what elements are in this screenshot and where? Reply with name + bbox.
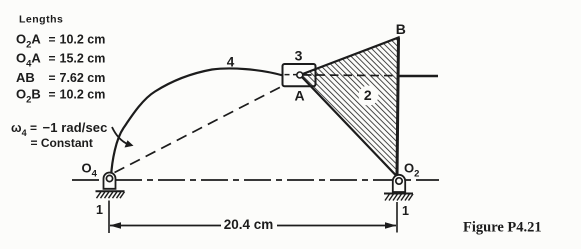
svg-text:20.4 cm: 20.4 cm <box>224 217 274 232</box>
pivot O4 pin circle <box>106 175 112 181</box>
wire dashed line through link 2 <box>303 74 398 77</box>
wire dashed line O4 to A <box>115 86 283 173</box>
ground at O4 <box>96 190 125 192</box>
omega arrow <box>112 127 129 145</box>
dimension witness line left <box>108 201 110 234</box>
pivot O2 pin circle <box>396 178 402 184</box>
dimension witness line right <box>396 202 398 233</box>
link 2 triangle hatched <box>300 38 399 177</box>
node ground centerline (frame 1) <box>72 179 439 181</box>
svg-text:4: 4 <box>227 55 235 70</box>
svg-text:1: 1 <box>402 204 409 218</box>
pin A circle <box>297 72 303 78</box>
ground at O2 <box>384 193 413 195</box>
svg-text:Figure P4.21: Figure P4.21 <box>463 220 542 236</box>
pivot O2 clevis <box>393 175 405 192</box>
svg-text:B: B <box>396 21 406 37</box>
svg-text:AB=7.62 cm: AB=7.62 cm <box>16 70 105 85</box>
wire solid line right of link 2 <box>399 75 438 77</box>
svg-text:A: A <box>294 88 304 104</box>
wire dash-dot slider axis inside block <box>285 74 297 76</box>
link 4 curved arm <box>111 68 283 177</box>
label 2 on white patch <box>359 86 379 106</box>
link 2 right edge emphasis <box>397 38 399 177</box>
pivot O4 clevis <box>104 173 116 189</box>
svg-text:3: 3 <box>295 48 303 64</box>
dimension line 20.4 cm <box>110 225 221 227</box>
svg-text:Lengths: Lengths <box>19 14 63 26</box>
svg-text:2: 2 <box>364 87 372 103</box>
slider block 3 <box>283 64 316 86</box>
svg-text:1: 1 <box>96 203 103 217</box>
svg-text:= Constant: = Constant <box>31 136 93 150</box>
